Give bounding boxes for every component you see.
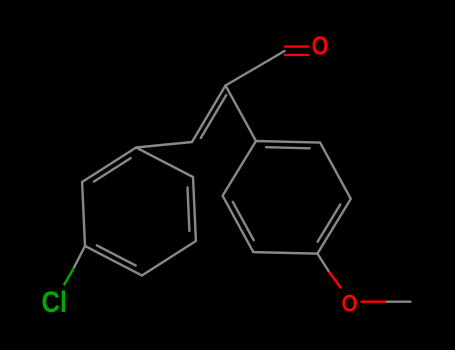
C=O double bond upper stroke (red) [285,45,308,47]
OMe bond gray half [317,254,329,273]
right benzene ring outline [223,141,351,254]
bond C2 to right ring ipso [226,86,257,142]
bond C1-C2 (CHO to alpha carbon) [226,51,285,86]
OMe bond red half [330,273,341,288]
O-CH3 bond gray half [387,301,411,303]
left ring aromatic inner line right edge [188,188,190,232]
Cl bond green half [64,269,73,285]
left ring aromatic inner line top-left edge [94,158,131,181]
Cl bond gray half [74,246,86,269]
double bond C2=C3 second stroke [201,95,226,138]
svg-text:Cl: Cl [41,285,67,318]
left ring aromatic inner line bottom-left edge [97,245,136,265]
right ring aromatic inner line top edge [266,147,310,148]
right ring aromatic inner line lower-left edge [233,202,254,240]
svg-text:O: O [342,289,358,317]
double bond C2=C3 main stroke [192,86,226,143]
left benzene ring outline [82,148,196,276]
right ring aromatic inner line lower-right edge [318,205,341,242]
O-CH3 bond red half [362,301,388,303]
bond C3 to left ring ipso [136,142,192,148]
C=O double bond lower stroke (red) [285,54,308,56]
svg-text:O: O [312,33,329,61]
